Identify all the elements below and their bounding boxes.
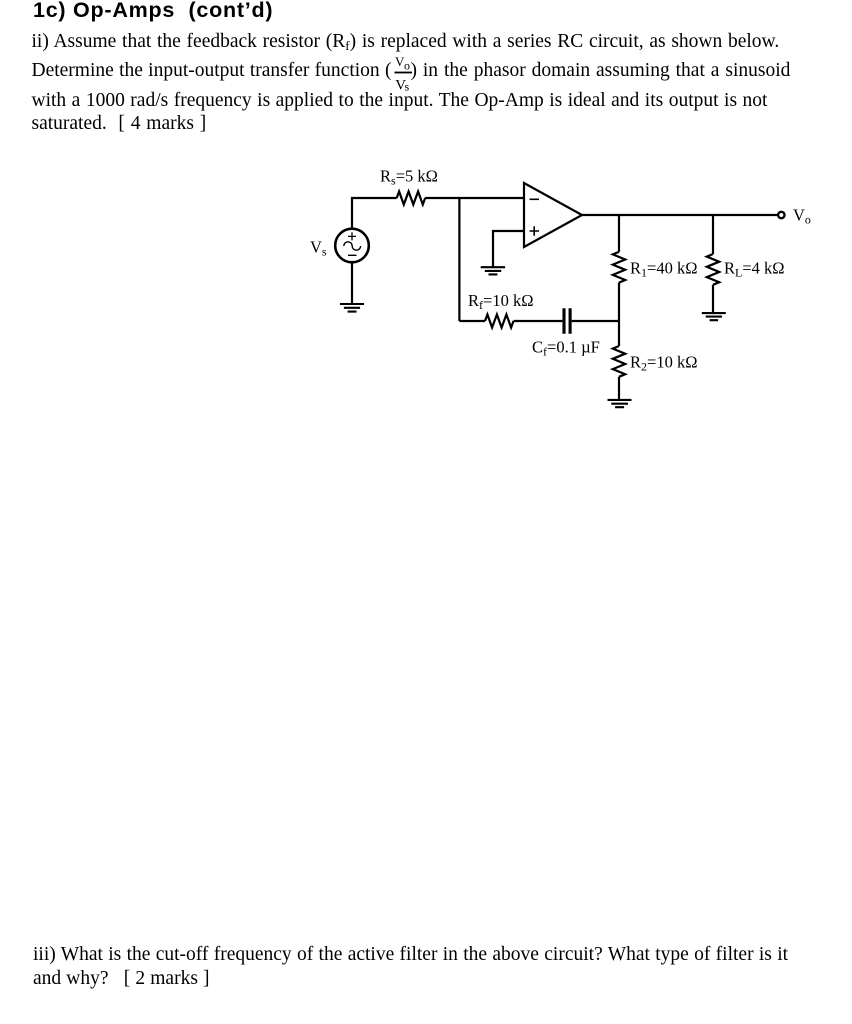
- svg-text:Vs: Vs: [310, 238, 327, 259]
- wire: R1 bottom to node B: [618, 283, 620, 321]
- svg-text:RL=4 kΩ: RL=4 kΩ: [724, 259, 785, 280]
- wire: Rs to inverting input: [425, 197, 524, 199]
- paragraph line 4: [32, 112, 207, 136]
- wire: output node down to R1: [618, 215, 620, 252]
- svg-text:Vo: Vo: [793, 206, 811, 227]
- wire: op-amp output to Vo terminal: [582, 214, 778, 216]
- svg-text:Rs=5 kΩ: Rs=5 kΩ: [380, 167, 438, 188]
- wire: Rf to capacitor: [514, 320, 563, 322]
- paragraph line 1: [32, 30, 780, 58]
- node B: wire down to R2: [618, 321, 620, 346]
- fraction Vo/Vs: [394, 56, 413, 92]
- resistor R2: [613, 346, 625, 377]
- wire: capacitor to node B: [572, 320, 619, 322]
- ground under source: [340, 304, 364, 312]
- ground at non-inverting input: [481, 267, 505, 274]
- source minus mark: [348, 254, 357, 256]
- op-amp plus pin mark: [530, 226, 540, 236]
- resistor RL: [707, 254, 719, 285]
- wire: source bottom lead: [351, 262, 353, 304]
- svg-text:R1=40 kΩ: R1=40 kΩ: [630, 259, 697, 280]
- svg-text:Rf=10 kΩ: Rf=10 kΩ: [468, 291, 533, 312]
- ground under R2: [608, 400, 632, 407]
- source Vs circle: [335, 229, 369, 263]
- source sine mark: [344, 242, 361, 250]
- bottom paragraph line 1: [33, 943, 788, 967]
- terminal Vo: [778, 212, 784, 218]
- svg-text:Cf=0.1 µF: Cf=0.1 µF: [532, 338, 600, 359]
- wire: output node down to RL: [712, 215, 714, 254]
- op-amp minus pin mark: [530, 198, 540, 200]
- source plus mark: [348, 232, 356, 240]
- wire: R2 bottom lead: [618, 377, 620, 400]
- paragraph line 3: [32, 89, 768, 113]
- paragraph line 2: [32, 59, 791, 83]
- title: [33, 0, 273, 22]
- resistor Rf: [485, 315, 514, 328]
- capacitor Cf: [564, 308, 570, 334]
- node A: inverting input junction, feedback drop wire: [458, 198, 460, 321]
- resistor Rs: [397, 192, 426, 205]
- bottom paragraph line 2: [33, 967, 210, 991]
- resistor R1: [613, 252, 625, 283]
- op-amp U1: [524, 183, 582, 247]
- wire: non-inverting input to ground: [493, 231, 524, 267]
- wire: RL bottom lead: [712, 285, 714, 313]
- svg-text:R2=10 kΩ: R2=10 kΩ: [630, 353, 697, 374]
- wire: source top lead and input wire to op-amp with Rs inline: [352, 198, 397, 229]
- wire: feedback horizontal to Rf: [459, 320, 485, 322]
- ground under RL: [702, 313, 726, 320]
